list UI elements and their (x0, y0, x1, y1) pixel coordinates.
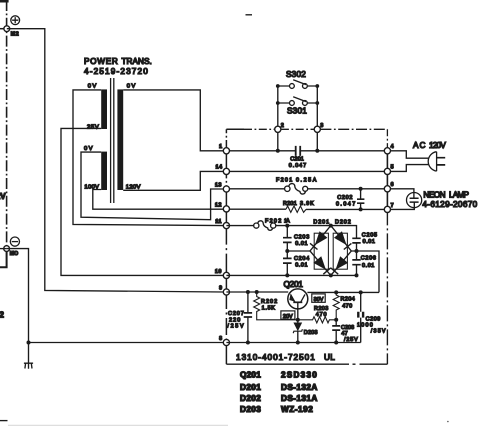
PCB boundary bottom edge (226, 363, 349, 365)
wire 0V primary2 to pin 13 (81, 152, 223, 220)
svg-text:0V: 0V (127, 83, 136, 89)
chassis dash-dot line left (6, 0, 8, 249)
junction R203/R204/C208 (334, 318, 338, 322)
pin 1 (223, 148, 229, 154)
svg-text:Q201: Q201 (240, 371, 261, 380)
svg-text:C206: C206 (361, 256, 377, 262)
pin 12 (223, 206, 229, 212)
AC plug wires (387, 151, 428, 158)
pin 4 (384, 148, 390, 154)
svg-text:M2: M2 (11, 32, 19, 38)
AC plug prongs (437, 158, 446, 165)
svg-text:1.5K: 1.5K (262, 306, 276, 312)
switch frame right (307, 86, 317, 151)
resistor R202 (254, 292, 298, 320)
svg-text:MO: MO (10, 251, 19, 257)
svg-text:R201: R201 (283, 201, 297, 207)
svg-text:6: 6 (391, 182, 395, 188)
svg-text:13: 13 (215, 182, 222, 188)
wire 0V primary1 to pin 11 (73, 90, 223, 226)
svg-text:LAMP: LAMP (449, 190, 470, 199)
bottom row pin8 (226, 342, 360, 344)
pin 13 (223, 186, 229, 192)
svg-text:9: 9 (219, 285, 223, 291)
svg-text:12: 12 (215, 202, 222, 208)
ground (24, 363, 33, 369)
30V box (312, 294, 325, 302)
svg-text:0.01: 0.01 (363, 239, 376, 245)
resistor R203 (298, 317, 336, 323)
svg-text:20V: 20V (283, 314, 293, 320)
capacitor C207 (247, 292, 249, 343)
row pin12 to pin7 with resistor R201 (226, 208, 387, 210)
node M0 (4, 246, 10, 252)
junction (359, 187, 363, 191)
junction R202 top (255, 290, 259, 294)
junction (315, 101, 319, 105)
junction (355, 273, 359, 277)
PCB boundary right bus (386, 129, 388, 147)
svg-text:2SD330: 2SD330 (281, 371, 317, 380)
fuse F202 (254, 221, 276, 230)
svg-text:0V: 0V (84, 146, 93, 152)
wire secondary 120V to pin 14 (123, 171, 223, 190)
svg-text:2: 2 (281, 123, 285, 129)
diode D201 lower (314, 257, 326, 269)
svg-text:120V: 120V (429, 141, 446, 150)
svg-text:2: 2 (0, 311, 4, 320)
row pin1 to pin4 (226, 150, 387, 152)
svg-text:10: 10 (215, 269, 222, 275)
wire bridge right to corner (351, 251, 379, 292)
switch S302 (290, 80, 308, 89)
regulator top row (226, 291, 379, 293)
pin 6 (384, 186, 390, 192)
svg-text:C204: C204 (294, 256, 310, 262)
row pin14 to pin5 (226, 170, 387, 172)
svg-text:4-2519-23720: 4-2519-23720 (84, 67, 148, 76)
capacitor C205 (352, 238, 360, 243)
svg-text:0.01: 0.01 (362, 263, 375, 269)
switch frame left (278, 86, 290, 151)
wire M0 to ground (7, 249, 29, 363)
junction bridge top (329, 224, 333, 228)
capacitor C209 electrolytic (360, 292, 362, 342)
minus terminal symbol (10, 237, 19, 246)
junction (296, 341, 300, 345)
wire 25V to pin 10 (61, 128, 223, 275)
node M2 (4, 26, 10, 32)
pin 11 (223, 223, 229, 229)
svg-text:F201: F201 (276, 177, 293, 183)
fuse F201 (285, 184, 308, 195)
stray mark bottom left (0, 420, 8, 422)
wire bridge top to C205 (331, 226, 357, 239)
wire (0, 249, 7, 268)
diode D202 upper (335, 232, 347, 245)
svg-text:D202: D202 (240, 394, 261, 403)
junction (276, 101, 280, 105)
neon lamp (407, 193, 422, 208)
stray speck (447, 421, 449, 423)
svg-text:0.01: 0.01 (295, 263, 308, 269)
svg-text:F202: F202 (265, 218, 282, 224)
row pin10 bottom of bridge (226, 274, 356, 276)
svg-text:UL: UL (324, 353, 335, 362)
svg-text:S302: S302 (286, 70, 306, 79)
svg-text:11: 11 (215, 219, 222, 225)
resistor R201 (286, 206, 306, 212)
svg-text:AC: AC (413, 141, 426, 150)
svg-text:0V: 0V (88, 83, 97, 89)
svg-text:R203: R203 (314, 306, 329, 312)
svg-text:4-6129-20670: 4-6129-20670 (422, 200, 477, 209)
junction C209 top (359, 290, 363, 294)
svg-text:0.25A: 0.25A (296, 177, 317, 183)
junction (285, 249, 289, 253)
pin 2 (275, 126, 281, 132)
switch S301 (290, 97, 308, 106)
junction (355, 249, 359, 253)
svg-text:470: 470 (316, 312, 327, 318)
junction (359, 207, 363, 211)
diode D201 upper (315, 232, 327, 245)
bridge rectifier outline boxes (314, 233, 328, 269)
pin 7 (384, 206, 390, 212)
svg-text:C207: C207 (228, 311, 244, 317)
svg-text:4: 4 (391, 144, 395, 150)
junction (329, 273, 333, 277)
svg-text:1A: 1A (284, 218, 290, 224)
svg-text:POWER: POWER (84, 57, 118, 66)
junction (276, 84, 280, 88)
svg-text:1310-4001-72501: 1310-4001-72501 (236, 353, 315, 362)
transformer primary winding 2 (101, 152, 107, 190)
corner mark (0, 0, 9, 3)
svg-text:R204: R204 (341, 297, 356, 303)
svg-text:470: 470 (342, 303, 352, 309)
svg-text:C203: C203 (294, 235, 310, 241)
transformer core (111, 78, 114, 203)
svg-text:D203: D203 (304, 330, 318, 336)
transistor Q201 (288, 289, 308, 309)
junction (285, 224, 289, 228)
pin 9 (223, 289, 229, 295)
capacitor C201 (296, 146, 301, 156)
plus terminal symbol (11, 16, 20, 25)
svg-text:/25V: /25V (227, 324, 244, 330)
junction (246, 341, 250, 345)
pin 5 (384, 168, 390, 174)
pin number labels left (215, 144, 223, 342)
svg-text:C205: C205 (362, 233, 378, 239)
wire to bridge left (287, 250, 310, 252)
wire secondary 0V to pin 1 (123, 90, 223, 151)
svg-text:S301: S301 (287, 106, 307, 115)
faint scan streak (8, 424, 228, 426)
svg-text:D201: D201 (313, 219, 329, 225)
svg-text:47: 47 (341, 331, 348, 337)
wire 100V to pin 12 (93, 190, 224, 210)
pin number labels right (281, 123, 394, 209)
svg-text:WZ-192: WZ-192 (281, 405, 313, 414)
svg-text:3.9K: 3.9K (300, 201, 314, 207)
junction (27, 341, 31, 345)
base wire down (297, 309, 299, 323)
AC plug body (428, 152, 436, 171)
svg-text:TRANS.: TRANS. (122, 57, 153, 66)
svg-text:R202: R202 (261, 299, 277, 305)
row pin11 fuse F202 (226, 225, 330, 227)
svg-text:D201: D201 (240, 383, 261, 392)
svg-text:30V: 30V (314, 297, 324, 303)
resistor R204 (333, 292, 339, 319)
svg-text:3: 3 (320, 123, 324, 129)
svg-text:DS-132A: DS-132A (281, 383, 318, 392)
parts list (240, 371, 318, 414)
connector pins (223, 126, 390, 345)
svg-text:14: 14 (216, 165, 223, 171)
20V box (281, 311, 295, 319)
wire M2 to pin 9 (7, 29, 224, 292)
wire (0, 28, 7, 30)
svg-text:C202: C202 (337, 195, 353, 201)
svg-text:0.01: 0.01 (295, 241, 308, 247)
svg-text:2V: 2V (0, 192, 6, 201)
pin 8 (223, 339, 229, 345)
pin 10 (223, 272, 229, 278)
wire row8 left (29, 342, 224, 344)
svg-text:5: 5 (391, 165, 395, 171)
capacitor C203 chain (286, 226, 288, 251)
svg-text:D202: D202 (335, 219, 351, 225)
capacitor C204 (286, 251, 288, 275)
junction R204 top (334, 290, 338, 294)
PCB boundary top edge (226, 128, 244, 130)
capacitor C208 (335, 320, 337, 343)
svg-text:1: 1 (219, 144, 223, 150)
svg-text:C209: C209 (366, 316, 381, 322)
svg-text:Q201: Q201 (284, 280, 304, 289)
svg-text:NEON: NEON (423, 190, 445, 199)
junction (315, 84, 319, 88)
bridge diamond (310, 226, 351, 276)
svg-text:120V: 120V (126, 184, 141, 190)
svg-text:0.047: 0.047 (336, 201, 356, 207)
svg-text:220: 220 (229, 317, 241, 323)
diode D202 lower (336, 257, 347, 269)
row pin13 to pin6 with fuse F201 (226, 188, 387, 190)
PCB boundary left bus (225, 129, 227, 364)
svg-text:DS-131A: DS-131A (281, 394, 318, 403)
pin 3 (314, 126, 320, 132)
transformer secondary winding (117, 89, 123, 190)
wire (0, 248, 7, 250)
junction base (296, 318, 300, 322)
svg-text:8: 8 (219, 336, 223, 342)
capacitor C202 (357, 189, 364, 210)
svg-text:D203: D203 (240, 405, 261, 414)
zener D203 (294, 323, 302, 331)
neon lamp wires (387, 189, 414, 210)
junction C207 top (246, 290, 250, 294)
junction (334, 341, 338, 345)
transformer primary winding 1 (101, 89, 107, 129)
svg-text:C201: C201 (290, 157, 304, 163)
svg-text:0.047: 0.047 (289, 163, 307, 169)
stray mark top (246, 14, 253, 16)
svg-text:/35V: /35V (371, 328, 386, 334)
pin 14 (223, 168, 229, 174)
junction (276, 149, 280, 153)
junction (315, 149, 319, 153)
capacitor C206 (356, 251, 358, 275)
svg-text:7: 7 (391, 203, 395, 209)
junction (285, 273, 289, 277)
svg-text:25V: 25V (87, 124, 99, 130)
